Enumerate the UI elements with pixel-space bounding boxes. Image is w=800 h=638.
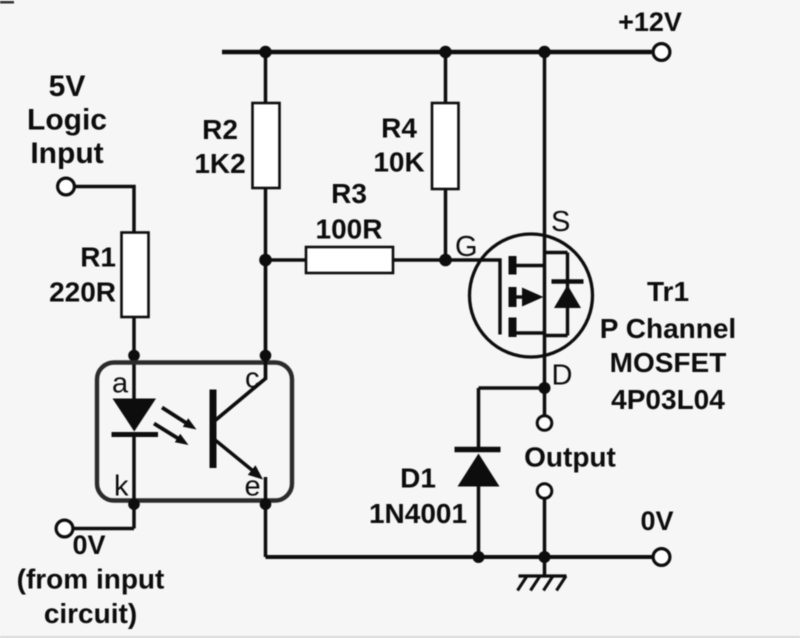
junction top rail / R2 bbox=[259, 46, 271, 58]
wire R1 to LED bbox=[132, 317, 136, 399]
light arrow 2 bbox=[154, 424, 189, 446]
wire R4 top bbox=[444, 52, 448, 104]
body diode triangle bbox=[554, 285, 581, 308]
terminal +12V bbox=[653, 44, 670, 61]
wire 0V bottom rail bbox=[266, 555, 653, 559]
terminal Output upper bbox=[537, 416, 552, 431]
wire k to 0V left terminal bbox=[74, 527, 134, 531]
channel segment middle bbox=[509, 287, 517, 307]
channel segment bottom bbox=[509, 318, 517, 338]
MOSFET body circle bbox=[470, 234, 593, 357]
wire D1 top bbox=[477, 388, 481, 449]
wire +12V top rail bbox=[222, 50, 652, 55]
junction top rail / S bbox=[538, 46, 550, 58]
resistor R2 bbox=[253, 103, 280, 188]
wire LED cathode down bbox=[132, 435, 136, 529]
svg-text:R2: R2 bbox=[202, 114, 238, 145]
resistor R4 bbox=[432, 103, 459, 189]
body diode branch top bbox=[545, 251, 568, 254]
emitter wire bbox=[215, 440, 259, 476]
terminal Output lower bbox=[537, 484, 552, 499]
terminal 5V input bbox=[58, 178, 75, 195]
svg-text:R1: R1 bbox=[80, 242, 116, 273]
wire R2 bottom bbox=[264, 188, 268, 260]
svg-text:P Channel: P Channel bbox=[600, 313, 736, 344]
source connect bbox=[516, 264, 546, 267]
svg-text:Output: Output bbox=[524, 442, 616, 473]
terminal 0V left bbox=[56, 520, 73, 537]
wire collector bbox=[215, 260, 266, 421]
node drain junction bbox=[539, 382, 551, 394]
diode D1 bbox=[455, 388, 501, 557]
svg-text:G: G bbox=[455, 231, 478, 263]
svg-text:D: D bbox=[552, 360, 573, 392]
svg-text:circuit): circuit) bbox=[44, 598, 137, 629]
svg-text:1N4001: 1N4001 bbox=[369, 498, 467, 529]
svg-text:R4: R4 bbox=[381, 113, 417, 144]
svg-text:Tr1: Tr1 bbox=[647, 276, 689, 307]
wire R3 to gate node bbox=[393, 258, 446, 262]
wire emitter down bbox=[264, 477, 268, 557]
resistor R3 bbox=[306, 247, 393, 273]
light arrow 1 bbox=[162, 408, 197, 430]
node D1/0V junction bbox=[473, 551, 485, 563]
wire D1 bottom bbox=[477, 487, 481, 558]
wire R3 left bbox=[266, 258, 307, 262]
D1 triangle bbox=[458, 454, 500, 487]
wire R4 bottom bbox=[444, 189, 448, 260]
body diode cathode bar bbox=[552, 279, 584, 284]
substrate arrow wire bbox=[516, 295, 526, 298]
svg-text:Logic: Logic bbox=[27, 104, 107, 137]
svg-text:R3: R3 bbox=[331, 178, 367, 209]
svg-text:Input: Input bbox=[30, 137, 103, 170]
phototransistor base bar bbox=[210, 390, 217, 469]
resistor R1 bbox=[122, 233, 149, 318]
wire output lower to 0V rail bbox=[543, 499, 547, 558]
terminal 0V right bbox=[653, 549, 670, 566]
svg-text:0V: 0V bbox=[72, 530, 105, 560]
svg-text:k: k bbox=[114, 471, 129, 503]
svg-text:S: S bbox=[551, 206, 570, 238]
svg-text:220R: 220R bbox=[49, 277, 116, 308]
junction anode pin bbox=[128, 350, 140, 362]
svg-text:+12V: +12V bbox=[618, 7, 682, 37]
junction emitter pin bbox=[260, 498, 272, 510]
transistor Tr1 MOSFET bbox=[470, 234, 593, 357]
body diode branch bottom bbox=[545, 334, 568, 337]
channel segment top bbox=[509, 256, 517, 275]
gate bar bbox=[498, 259, 501, 335]
junction cathode pin bbox=[128, 498, 140, 510]
drain connect bbox=[516, 331, 546, 334]
svg-text:MOSFET: MOSFET bbox=[610, 347, 727, 378]
substrate arrow head bbox=[522, 288, 544, 307]
node output/0V junction bbox=[539, 551, 551, 563]
svg-text:(from input: (from input bbox=[17, 564, 165, 595]
wire R2 top bbox=[264, 52, 268, 104]
wire gate bbox=[446, 258, 502, 262]
svg-text:5V: 5V bbox=[49, 70, 86, 103]
junction collector pin bbox=[260, 350, 272, 362]
wire drain to D1 bbox=[479, 386, 545, 390]
optocoupler box bbox=[97, 363, 292, 501]
svg-text:0V: 0V bbox=[640, 506, 673, 536]
wire S drain column bbox=[543, 52, 547, 416]
svg-text:a: a bbox=[112, 368, 129, 400]
svg-text:100R: 100R bbox=[316, 214, 383, 245]
svg-text:D1: D1 bbox=[400, 463, 436, 494]
junction top rail / R4 bbox=[439, 46, 451, 58]
wire input bbox=[75, 187, 135, 234]
node R2/R3 junction bbox=[259, 254, 272, 267]
ground bbox=[518, 557, 567, 591]
LED cathode bar bbox=[112, 432, 159, 437]
node G junction bbox=[439, 254, 452, 267]
D1 cathode bar bbox=[455, 447, 501, 453]
svg-text:1K2: 1K2 bbox=[194, 148, 245, 179]
emitter arrow head bbox=[248, 465, 263, 479]
body diode branch vertical bbox=[566, 253, 569, 336]
svg-text:4P03L04: 4P03L04 bbox=[611, 384, 725, 415]
LED triangle bbox=[113, 399, 157, 432]
svg-text:10K: 10K bbox=[373, 147, 424, 178]
